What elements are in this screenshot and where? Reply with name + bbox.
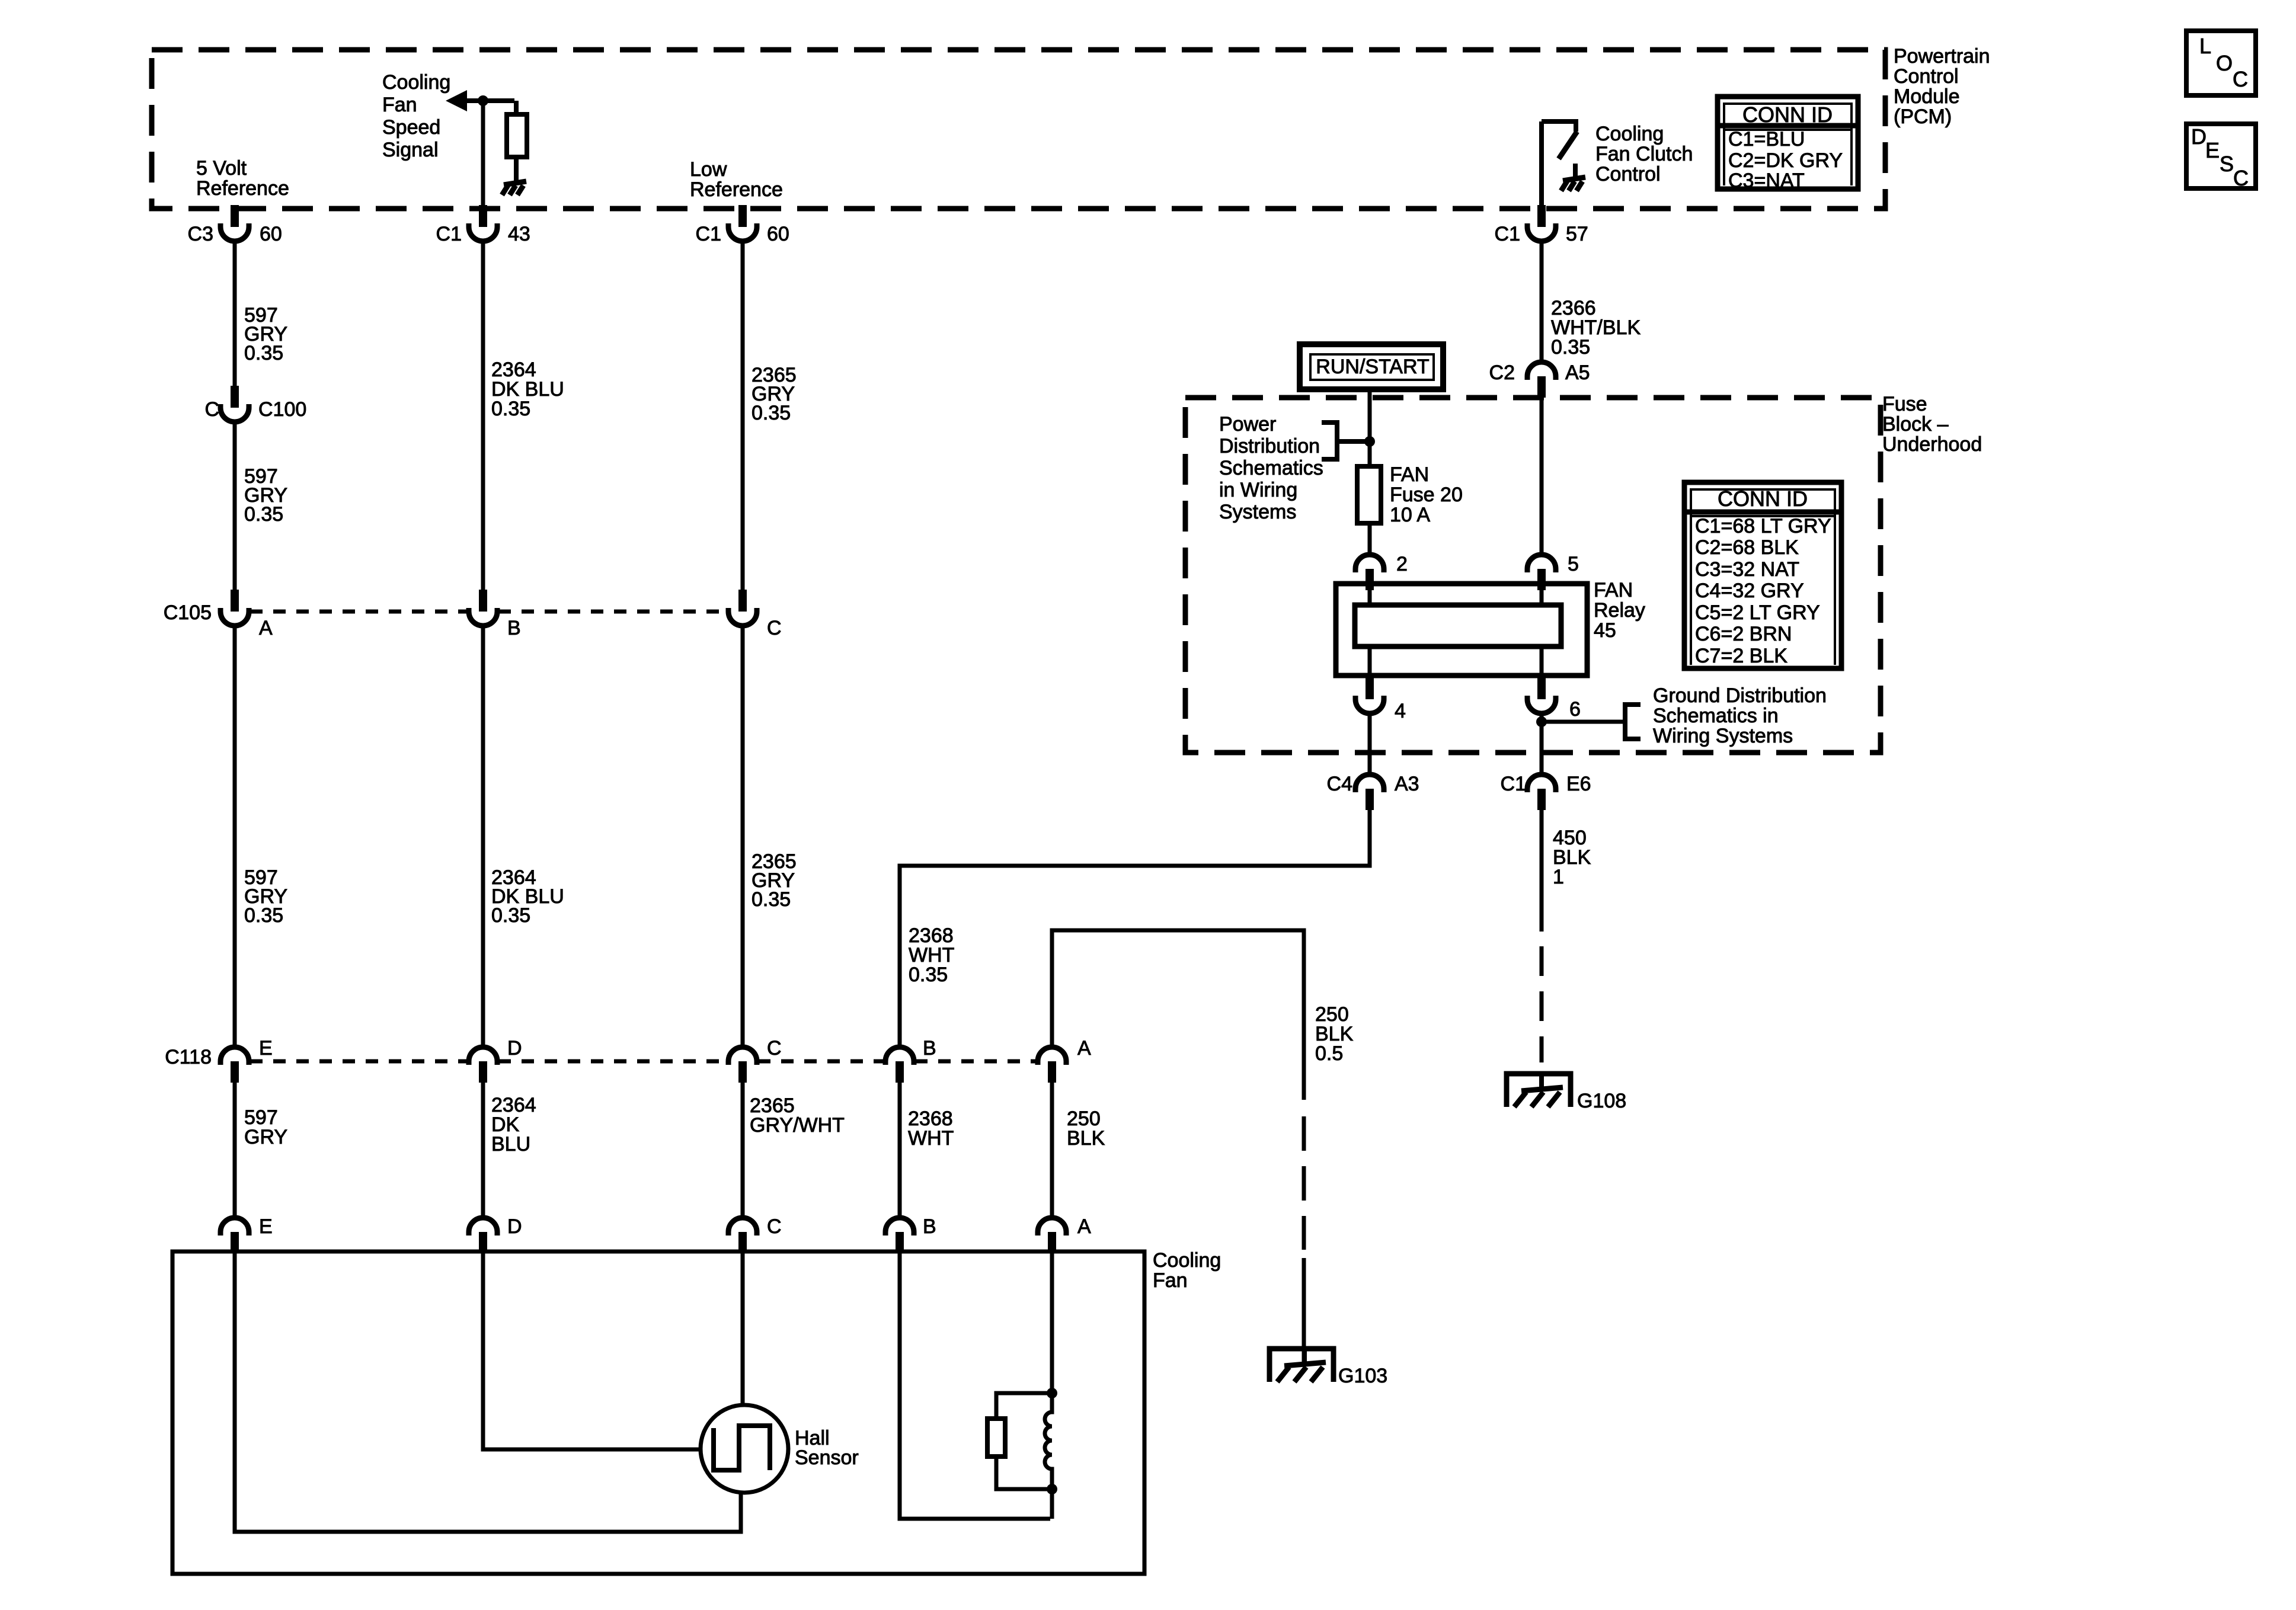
svg-text:0.35: 0.35 [244,904,283,927]
wire 2365 GRY segment 1 [741,241,745,590]
svg-text:CONN ID: CONN ID [1718,486,1808,511]
svg-text:Cooling: Cooling [382,71,450,94]
svg-text:C: C [767,1215,782,1238]
svg-text:C4: C4 [1327,773,1352,795]
svg-text:D: D [507,1037,522,1060]
wire dashed harness C118 C-B [758,1060,884,1064]
svg-text:60: 60 [260,223,282,245]
wire fuse to relay pin 2 [1368,523,1372,555]
svg-text:C: C [204,398,219,421]
wire RUN/START to fuse [1368,389,1372,466]
connector pin C3-60 (5 volt reference) [220,205,249,241]
wire motor to B return [1050,1489,1054,1519]
svg-text:Underhood: Underhood [1882,433,1982,456]
svg-text:Fan: Fan [382,94,417,116]
svg-text:C1: C1 [696,223,721,245]
wire 2365 GRY segment 2 [741,626,745,1047]
svg-text:BLK: BLK [1067,1127,1105,1150]
svg-text:57: 57 [1566,223,1588,245]
svg-text:C2=68 BLK: C2=68 BLK [1695,536,1799,559]
svg-text:B: B [923,1037,936,1060]
svg-text:G103: G103 [1338,1365,1387,1387]
relay pin 6 [1527,677,1556,713]
connector C4-A3 [1355,774,1384,810]
svg-text:Fuse: Fuse [1882,393,1927,415]
signal arrow [446,90,514,111]
connector cooling fan pin E [220,1218,249,1253]
connector C105 pin C [728,590,757,626]
svg-text:C: C [767,617,782,639]
svg-text:C100: C100 [258,398,306,421]
connector C100 pin C [220,386,249,422]
wire 2366 WHT/BLK [1540,241,1544,362]
junction motor bottom [1047,1484,1057,1494]
DESC reference box [2186,124,2256,190]
svg-text:E: E [2205,138,2220,162]
svg-text:Powertrain: Powertrain [1894,45,1990,68]
svg-text:2: 2 [1396,553,1408,575]
svg-text:Block –: Block – [1882,413,1949,436]
bracket ground distribution reference [1625,705,1641,739]
hall sensor U1 [701,1405,788,1493]
svg-text:C118: C118 [165,1046,212,1068]
wire 250 BLK segment 2 [1050,1083,1054,1218]
CONN ID table (fuse block) [1684,482,1841,668]
svg-text:C1: C1 [1501,773,1526,795]
fuse FAN Fuse 20 10A [1357,466,1381,523]
wire pin 6 to C1-E6 [1540,713,1544,774]
svg-text:Ground Distribution: Ground Distribution [1653,684,1827,707]
svg-text:GRY: GRY [244,1126,287,1148]
wire dashed harness C118 E-D [250,1060,468,1064]
svg-text:C7=2 BLK: C7=2 BLK [1695,645,1787,667]
junction ground distribution tap [1536,716,1547,727]
wire relay internal pin2 [1368,590,1372,605]
svg-text:C3=32 NAT: C3=32 NAT [1695,558,1799,581]
svg-text:Power: Power [1219,413,1276,436]
svg-text:0.35: 0.35 [1551,336,1590,359]
svg-text:D: D [2191,124,2207,149]
wire motor resistor branch bottom [996,1457,1052,1489]
ground (PCM internal, under resistor) [502,181,526,195]
svg-text:C1: C1 [436,223,462,245]
svg-text:C1=BLU: C1=BLU [1728,128,1805,151]
wire to pull-up resistor [514,101,519,114]
svg-text:Schematics: Schematics [1219,457,1323,479]
svg-text:0.35: 0.35 [244,342,283,364]
svg-text:Fan: Fan [1153,1269,1188,1292]
connector C118 pin B [885,1047,914,1083]
Cooling Fan box [172,1251,1144,1574]
svg-text:C1: C1 [1495,223,1520,245]
svg-text:L: L [2199,34,2211,58]
svg-text:O: O [2216,51,2233,75]
svg-text:C2: C2 [1489,361,1515,384]
wire relay internal pin5 [1540,590,1544,605]
wire A pin to motor [1050,1253,1054,1393]
svg-text:D: D [507,1215,522,1238]
svg-text:GRY/WHT: GRY/WHT [750,1114,845,1137]
connector cooling fan pin D [469,1218,497,1253]
junction node on fan speed signal [478,95,488,106]
wire D pin to hall sensor left [483,1253,701,1449]
wire dashed harness C118 B-A [915,1060,1037,1064]
svg-text:C: C [2233,67,2248,91]
svg-text:A: A [1077,1037,1091,1060]
wire A5 to relay pin 5 [1540,398,1544,555]
svg-text:C: C [2233,166,2249,190]
wire node to ground distribution bracket [1542,720,1625,724]
svg-text:A: A [1077,1215,1091,1238]
relay pin 5 [1527,555,1556,590]
wire E pin to hall sensor bottom [235,1253,741,1532]
svg-text:Relay: Relay [1594,599,1645,622]
wire 450 BLK dashed part [1540,946,1544,1062]
LOC reference box [2186,31,2256,95]
svg-text:60: 60 [767,223,789,245]
wire 250 BLK to ground [1302,1258,1306,1366]
wire 597 GRY segment 1 [233,241,237,386]
wire 2364 DK BLU segment 2 [481,626,485,1047]
connector C105 pin B [469,590,497,626]
wire bracket to node [1337,439,1370,444]
connector C118 pin E [220,1047,249,1083]
wire dashed harness C105 B-C [498,610,727,614]
wire dashed harness C118 D-C [498,1060,727,1064]
svg-text:G108: G108 [1577,1090,1626,1112]
svg-text:in Wiring: in Wiring [1219,479,1297,501]
svg-text:Distribution: Distribution [1219,435,1320,457]
svg-text:0.35: 0.35 [909,964,948,986]
ground G103 [1269,1349,1334,1382]
Powertrain Control Module (PCM) dashed box [152,50,1885,209]
relay contact bar [1355,605,1561,646]
svg-text:A: A [259,617,273,639]
wire relay internal pin4 [1368,646,1372,676]
connector pin C1-60 (low reference) [728,205,757,241]
svg-text:C2=DK GRY: C2=DK GRY [1728,149,1843,172]
inductor / motor winding L1 [1045,1393,1052,1489]
svg-text:0.35: 0.35 [752,888,791,911]
svg-text:0.35: 0.35 [752,402,791,424]
svg-text:C4=32 GRY: C4=32 GRY [1695,580,1804,602]
svg-text:5 Volt: 5 Volt [196,157,247,180]
connector C118 pin D [469,1047,497,1083]
svg-text:45: 45 [1594,619,1616,642]
connector cooling fan pin B [885,1218,914,1253]
svg-text:Systems: Systems [1219,501,1296,523]
wire B pin to motor return [900,1253,1050,1519]
svg-text:10 A: 10 A [1390,504,1430,526]
svg-text:Wiring Systems: Wiring Systems [1653,725,1793,747]
ground G108 [1507,1074,1571,1107]
connector pin C1-57 (fan clutch control) [1527,205,1556,241]
svg-text:0.35: 0.35 [491,398,530,420]
connector C118 pin A [1038,1047,1066,1083]
wire 2368 WHT segment 2 [898,1083,902,1218]
junction power feed [1364,436,1375,447]
svg-text:E: E [259,1215,273,1238]
connector cooling fan pin C [728,1218,757,1253]
wire fan speed signal to pin 43 [481,101,485,205]
ground (PCM internal, under switch) [1561,177,1585,191]
wire 450 BLK (solid part) [1540,810,1544,932]
svg-text:43: 43 [508,223,530,245]
svg-text:C1=68 LT GRY: C1=68 LT GRY [1695,515,1831,537]
svg-text:Control: Control [1595,163,1661,185]
svg-text:B: B [507,617,521,639]
svg-text:Signal: Signal [382,139,439,161]
svg-text:Sensor: Sensor [795,1446,859,1469]
svg-text:4: 4 [1395,700,1406,722]
svg-text:Reference: Reference [196,177,289,200]
svg-text:FAN: FAN [1390,463,1429,486]
svg-text:C6=2 BRN: C6=2 BRN [1695,623,1792,645]
wire 2365 GRY/WHT segment [741,1083,745,1218]
connector C118 pin C [728,1047,757,1083]
svg-text:Fan Clutch: Fan Clutch [1595,143,1693,165]
Fuse Block - Underhood dashed box [1185,398,1881,753]
svg-text:A3: A3 [1395,773,1419,795]
svg-text:Cooling: Cooling [1153,1249,1221,1272]
connector C2-A5 [1527,362,1556,398]
svg-text:Module: Module [1894,85,1960,108]
svg-text:S: S [2220,152,2234,176]
svg-text:RUN/START: RUN/START [1316,356,1429,378]
svg-text:CONN ID: CONN ID [1742,103,1833,127]
wire C pin to hall sensor top [741,1253,745,1405]
relay FAN Relay 45 (outer box) [1336,584,1587,676]
relay pin 2 [1355,555,1384,590]
svg-text:BLU: BLU [491,1133,530,1156]
svg-text:Speed: Speed [382,116,440,139]
CONN ID table (PCM) [1718,97,1858,192]
connector C105 pin A [220,590,249,626]
svg-text:C5=2 LT GRY: C5=2 LT GRY [1695,601,1820,624]
svg-text:6: 6 [1569,698,1581,721]
wire resistor to ground [514,157,519,181]
wire A3 to cooling fan pin B (2368 WHT) [900,810,1370,1047]
svg-text:Low: Low [690,158,727,181]
wire motor resistor branch top [996,1393,1052,1419]
wire 250 BLK to G103 (solid part) [1052,930,1304,1100]
svg-text:C3=NAT: C3=NAT [1728,169,1805,192]
svg-text:WHT: WHT [908,1127,954,1150]
svg-text:1: 1 [1553,866,1564,888]
wire 250 BLK dashed part [1302,1116,1306,1250]
connector cooling fan pin A [1038,1218,1066,1253]
wire 597 GRY segment 4 [233,1083,237,1218]
svg-text:E: E [259,1037,273,1060]
bracket power distribution reference [1322,422,1337,459]
svg-text:B: B [923,1215,936,1238]
svg-text:C: C [767,1037,782,1060]
svg-text:FAN: FAN [1594,579,1633,601]
wire 2364 DK BLU segment 3 [481,1083,485,1218]
svg-text:0.35: 0.35 [244,503,283,526]
svg-text:Fuse 20: Fuse 20 [1390,484,1463,506]
wire 597 GRY segment 2 [233,422,237,590]
wire dashed harness C105 A-B [250,610,468,614]
wire 2364 DK BLU segment 1 [481,241,485,590]
resistor R (PCM internal) [507,114,527,157]
svg-text:Reference: Reference [690,178,783,201]
svg-text:A5: A5 [1565,361,1590,384]
svg-text:5: 5 [1568,553,1579,575]
svg-text:Cooling: Cooling [1595,123,1664,145]
wire pin 4 to C4-A3 [1368,713,1372,774]
wire relay internal pin6 [1540,646,1544,676]
wire switch ground stub [1573,164,1578,178]
connector pin C1-43 (fan speed signal) [469,205,497,241]
svg-text:C105: C105 [164,601,212,624]
RUN/START voltage source box [1300,344,1443,389]
wire clutch control to pin 57 [1539,121,1544,205]
wire 597 GRY segment 3 [233,626,237,1047]
svg-text:Schematics in: Schematics in [1653,705,1779,727]
resistor (fan motor) [987,1419,1005,1457]
switch (cooling fan clutch control driver) [1542,121,1577,159]
connector C1-E6 [1527,774,1556,810]
svg-text:Control: Control [1894,65,1959,88]
relay pin 4 [1355,677,1384,713]
svg-text:(PCM): (PCM) [1894,105,1952,128]
svg-text:0.5: 0.5 [1315,1042,1343,1065]
junction motor top [1047,1388,1057,1398]
svg-text:C3: C3 [188,223,213,245]
svg-text:0.35: 0.35 [491,904,530,927]
svg-text:E6: E6 [1566,773,1591,795]
